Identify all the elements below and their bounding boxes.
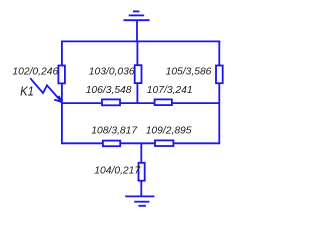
ground bottom xyxy=(125,196,154,205)
wire top bus xyxy=(61,40,220,42)
wire right branch xyxy=(218,41,220,145)
ground top xyxy=(124,11,150,41)
resistor R104 xyxy=(139,163,145,181)
svg-text:102/0,246: 102/0,246 xyxy=(12,67,58,78)
resistor R108 xyxy=(103,141,120,147)
svg-text:104/0,217: 104/0,217 xyxy=(94,166,141,177)
svg-text:106/3,548: 106/3,548 xyxy=(86,85,132,96)
resistor R102 xyxy=(58,66,65,84)
switch arrow K1 xyxy=(30,78,62,102)
svg-text:103/0,036: 103/0,036 xyxy=(89,67,135,78)
resistor R109 xyxy=(155,140,173,146)
svg-text:K1: K1 xyxy=(20,84,34,99)
resistor R103 xyxy=(135,65,142,83)
svg-text:108/3,817: 108/3,817 xyxy=(91,126,138,137)
resistor R106 xyxy=(102,99,120,105)
svg-text:105/3,586: 105/3,586 xyxy=(166,67,212,78)
svg-text:109/2,895: 109/2,895 xyxy=(146,126,192,137)
wire row node C xyxy=(62,142,219,144)
svg-text:107/3,241: 107/3,241 xyxy=(147,85,193,96)
wire R104 stem xyxy=(140,143,142,196)
wire middle column R103 branch xyxy=(136,41,138,103)
resistor R105 xyxy=(216,66,223,84)
wire row node B xyxy=(62,102,219,104)
resistor R107 xyxy=(155,99,172,105)
wire left branch xyxy=(61,41,63,145)
